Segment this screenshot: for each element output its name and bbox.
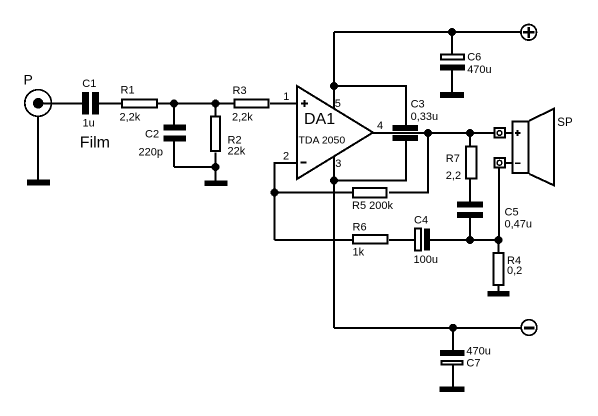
wire bottom rail: [334, 327, 521, 329]
svg-text:C3: C3: [411, 99, 425, 111]
svg-text:C2: C2: [145, 129, 159, 141]
node zobel bottom: [466, 236, 474, 244]
svg-text:3: 3: [335, 158, 341, 170]
resistor R3: [232, 85, 269, 124]
svg-text:5: 5: [335, 98, 341, 110]
wire C4 to zobel node: [430, 239, 470, 241]
ground at P: [27, 116, 50, 186]
capacitor C7: [440, 328, 491, 387]
wire SP plus terminal to speaker: [506, 132, 513, 134]
wire inverting node down to R6: [274, 193, 276, 241]
svg-text:SP: SP: [557, 117, 573, 129]
wire pin 2 stub: [275, 163, 298, 193]
wire R6 left: [275, 239, 353, 241]
node input/C2: [170, 100, 178, 108]
node input/R2: [212, 100, 220, 108]
svg-text:0,47u: 0,47u: [505, 219, 533, 231]
terminal +V: [521, 25, 537, 41]
resistor R6: [353, 222, 388, 259]
svg-text:R3: R3: [233, 85, 247, 97]
svg-text:100u: 100u: [414, 254, 438, 266]
wire R6 to C4: [389, 239, 415, 241]
svg-text:4: 4: [377, 120, 383, 132]
svg-text:470u: 470u: [466, 346, 490, 358]
capacitor C6: [440, 32, 492, 92]
svg-text:22k: 22k: [228, 146, 246, 158]
resistor R5: [352, 188, 393, 212]
wire P to C1: [38, 103, 82, 105]
wire top rail: [334, 31, 521, 33]
node R4 top: [495, 236, 503, 244]
svg-text:2: 2: [283, 151, 289, 163]
speaker SP: [513, 109, 573, 186]
wire C2 bottom to R2 bottom: [174, 166, 216, 168]
resistor R7: [446, 133, 477, 182]
node top rail/C6: [448, 28, 456, 36]
node bottom rail/C7: [449, 324, 457, 332]
wire speaker minus down: [498, 168, 500, 240]
svg-text:R1: R1: [121, 85, 135, 97]
wire pin5 node to C3 top: [334, 86, 406, 125]
node output/R7: [466, 129, 474, 137]
svg-text:C7: C7: [466, 357, 480, 369]
wire inverting node to R5: [275, 192, 353, 194]
svg-text:0,33u: 0,33u: [411, 111, 439, 123]
wire C3 bottom to pin3 node: [334, 141, 406, 181]
resistor R1: [120, 85, 157, 124]
wire R1 to R3: [158, 103, 234, 105]
wire pin 3 supply: [333, 157, 335, 328]
svg-text:470u: 470u: [467, 64, 491, 76]
node output/R5: [424, 129, 432, 137]
svg-text:1: 1: [283, 91, 289, 103]
svg-text:DA1: DA1: [304, 111, 335, 128]
op-amp DA1: [297, 86, 373, 179]
svg-text:0,2: 0,2: [507, 265, 522, 277]
resistor R2: [211, 104, 246, 168]
capacitor C3: [393, 99, 439, 141]
terminal SP plus: [494, 128, 505, 138]
node pin5 / C3 branch: [330, 82, 338, 90]
svg-text:R6: R6: [353, 222, 367, 234]
wire C1 to R1: [99, 103, 122, 105]
wire R3 to pin 1: [270, 103, 297, 105]
ground at R4: [488, 286, 510, 297]
svg-text:R5 200k: R5 200k: [352, 200, 393, 212]
ground at C7: [440, 387, 465, 392]
terminal -V: [521, 320, 537, 336]
node pin3 junction: [330, 177, 338, 185]
svg-text:2,2: 2,2: [446, 170, 461, 182]
svg-text:C6: C6: [467, 52, 481, 64]
capacitor C1: [80, 78, 110, 152]
node R2/C2 junction: [212, 163, 220, 171]
svg-text:2,2k: 2,2k: [120, 112, 141, 124]
resistor R4: [494, 240, 523, 285]
svg-text:C1: C1: [82, 78, 96, 90]
capacitor C4: [414, 215, 438, 267]
svg-text:C5: C5: [505, 207, 519, 219]
svg-text:1u: 1u: [83, 117, 95, 129]
capacitor C2: [139, 104, 187, 168]
svg-text:P: P: [24, 72, 33, 88]
svg-text:220p: 220p: [139, 147, 163, 159]
wire SP minus terminal to speaker: [506, 162, 513, 164]
svg-text:R7: R7: [446, 153, 460, 165]
connector P: [24, 72, 52, 117]
wire pin 5 supply: [333, 32, 335, 109]
wire zobel node to R4 node: [470, 239, 499, 241]
node inverting junction: [271, 189, 279, 197]
ground at C6: [440, 92, 464, 98]
svg-text:2,2k: 2,2k: [232, 112, 253, 124]
svg-text:1k: 1k: [353, 247, 365, 259]
terminal SP minus: [494, 158, 505, 167]
svg-text:Film: Film: [80, 135, 110, 152]
wire R5 to output: [389, 133, 428, 193]
capacitor C5: [457, 180, 532, 241]
svg-text:C4: C4: [414, 215, 428, 227]
ground at R2: [205, 167, 228, 186]
svg-text:TDA 2050: TDA 2050: [299, 135, 346, 147]
wire output: [373, 132, 493, 134]
